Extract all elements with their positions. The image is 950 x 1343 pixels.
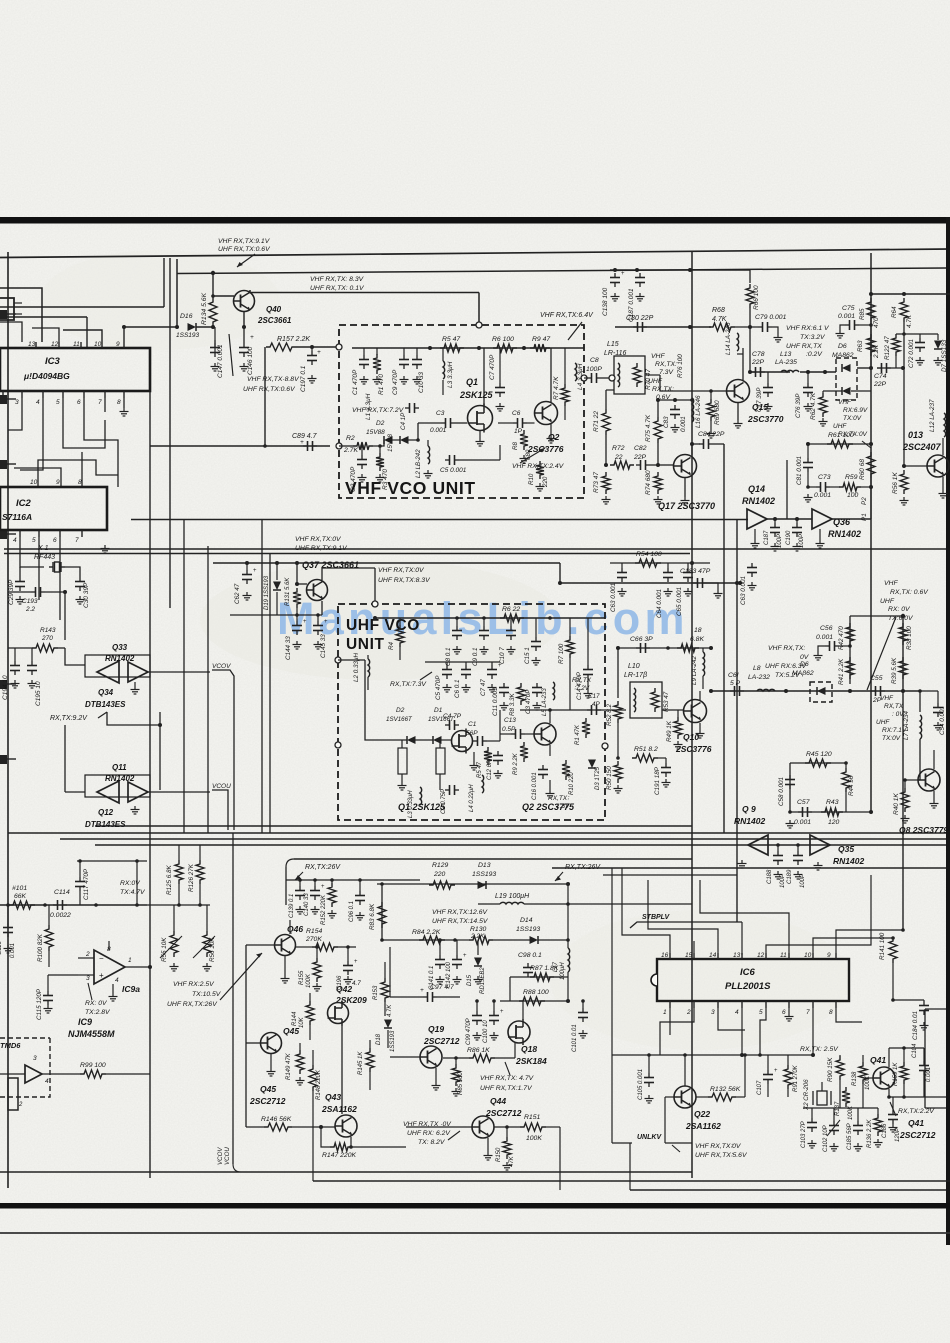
svg-text:RX,TX: RX,TX xyxy=(572,677,592,684)
svg-text:13: 13 xyxy=(733,952,741,959)
transistor Q46 2SC2712 xyxy=(275,935,296,956)
svg-text:VHF RX,TX:: VHF RX,TX: xyxy=(768,645,805,652)
svg-text:C139 0.1: C139 0.1 xyxy=(289,894,295,918)
ground under R10 xyxy=(536,483,545,491)
svg-text:UHF: UHF xyxy=(880,598,895,605)
w R85b xyxy=(455,1058,457,1064)
j R147 xyxy=(319,1125,323,1129)
capacitor C138 100 xyxy=(610,273,620,287)
wire y616 xyxy=(850,615,903,617)
svg-text:4: 4 xyxy=(735,1009,739,1016)
left edge pad xyxy=(0,680,7,689)
capacitor C7 470P xyxy=(495,383,505,397)
svg-text:0.001: 0.001 xyxy=(814,492,831,499)
capacitor C144 33 xyxy=(292,621,302,635)
wire C183 row xyxy=(560,582,740,584)
capacitor C4 1P xyxy=(405,403,419,413)
ground under C30 xyxy=(76,596,85,604)
resistor R73 47 xyxy=(602,472,610,494)
wire y940 xyxy=(382,939,455,941)
x xyxy=(892,938,894,1000)
wire Q14 to Q36 xyxy=(767,518,812,520)
resistor R148 220K xyxy=(309,1065,317,1091)
j C101 xyxy=(581,999,585,1003)
w xyxy=(491,662,493,665)
wire R143 right xyxy=(58,647,65,649)
w R154 l xyxy=(296,946,312,948)
wire rail to C183 row xyxy=(559,563,561,583)
svg-text:D3 1T25: D3 1T25 xyxy=(595,766,601,790)
svg-text:100P: 100P xyxy=(586,366,602,373)
svg-text:TX:4.7V: TX:4.7V xyxy=(120,889,146,896)
w R56 top xyxy=(206,905,208,931)
IC3 bottom pin 5 xyxy=(62,391,64,398)
w Q41 coll xyxy=(888,1048,890,1067)
svg-text:C193: C193 xyxy=(22,598,38,605)
IC3 top pin 13 xyxy=(35,342,37,348)
j D6 xyxy=(823,370,827,374)
svg-text:UHF RX,TX: UHF RX,TX xyxy=(786,343,822,350)
junction D16 xyxy=(175,325,179,329)
j xyxy=(453,938,457,942)
wire to R143 xyxy=(8,647,32,649)
wire corner xyxy=(233,1164,241,1172)
j3 xyxy=(688,268,692,272)
wire R87 row xyxy=(510,976,560,978)
wire y885 xyxy=(377,883,568,885)
diode D2 15V88 xyxy=(384,436,393,444)
resistor R18 6.8K xyxy=(677,644,699,652)
svg-text:UHF RX:6.3V: UHF RX:6.3V xyxy=(765,663,808,670)
svg-text:1SS193: 1SS193 xyxy=(516,926,540,933)
svg-text:R69 680: R69 680 xyxy=(714,400,721,425)
j R51 xyxy=(616,756,620,760)
capacitor C80 22P xyxy=(633,322,647,332)
svg-text:VHF RX,TX·8.8V: VHF RX,TX·8.8V xyxy=(247,376,300,383)
svg-text:C190: C190 xyxy=(786,530,792,545)
wire IC3 pin4 down xyxy=(20,398,43,470)
w R138 btm xyxy=(862,1084,864,1108)
wire Q45 base xyxy=(246,1042,261,1044)
svg-text:2.7K: 2.7K xyxy=(343,447,358,454)
svg-text:R9 47: R9 47 xyxy=(532,336,550,343)
j C144 xyxy=(295,613,299,617)
svg-text:3: 3 xyxy=(15,399,19,406)
ground C139 xyxy=(296,906,305,914)
gnd C6u xyxy=(462,684,471,692)
svg-text:4: 4 xyxy=(45,1078,49,1085)
FET Q42 2SK209 xyxy=(328,1001,349,1026)
svg-text:2.2K: 2.2K xyxy=(873,344,880,359)
svg-text:12: 12 xyxy=(757,952,765,959)
svg-text:C146 100: C146 100 xyxy=(247,346,254,375)
x xyxy=(48,957,78,959)
resistor R49 1K xyxy=(674,717,682,739)
w R145 btm xyxy=(369,1072,371,1090)
label arrow q18 xyxy=(505,1062,510,1075)
svg-text:R10: R10 xyxy=(528,473,535,485)
j C56 xyxy=(848,644,852,648)
svg-text:L19 100μH: L19 100μH xyxy=(495,893,530,900)
wire Q15 base xyxy=(715,390,726,392)
nothing xyxy=(870,368,872,391)
w C144 xyxy=(296,615,298,621)
svg-text:C64 0.001: C64 0.001 xyxy=(656,589,663,618)
resistor R63 2.2K xyxy=(867,334,875,356)
capacitor C13 0.5P xyxy=(511,729,525,739)
wire into Q12 xyxy=(65,791,85,793)
svg-text:DTB143ES: DTB143ES xyxy=(85,700,126,709)
svg-text:C75: C75 xyxy=(842,305,855,312)
wire IC6 pin5 dn xyxy=(760,1008,766,1055)
svg-text:Q18: Q18 xyxy=(521,1044,537,1054)
svg-text:C81 0.001: C81 0.001 xyxy=(796,456,803,485)
j R44 xyxy=(844,761,848,765)
capacitor C3u 470P xyxy=(532,683,542,697)
w R90 top xyxy=(839,1055,841,1056)
w C75 gnd xyxy=(840,325,845,330)
wire Q19 base xyxy=(390,1056,420,1058)
crystal X1 RF443 xyxy=(49,562,65,572)
svg-text:C195 10: C195 10 xyxy=(35,681,42,706)
svg-text:R55 10K: R55 10K xyxy=(161,937,168,962)
capacitor C3 0.001 xyxy=(441,418,455,428)
svg-text:15V88: 15V88 xyxy=(387,434,394,452)
ground C190 xyxy=(793,543,802,551)
ground under Q36 xyxy=(816,540,825,548)
node circle UHF left1 xyxy=(335,657,341,663)
wire C5 right xyxy=(459,459,500,461)
wire to D6b xyxy=(823,390,842,392)
w C186 top xyxy=(892,1097,894,1110)
svg-text:220: 220 xyxy=(433,871,446,878)
ground under Q15 xyxy=(734,420,743,428)
wire IC3 pin8 to gnd xyxy=(123,398,125,408)
label leader 88V xyxy=(229,334,233,376)
j C145 xyxy=(316,613,320,617)
j xyxy=(177,903,181,907)
wire Q46 base xyxy=(246,944,275,946)
svg-text:UHF RX,TX:1.7V: UHF RX,TX:1.7V xyxy=(480,1085,533,1092)
wire down to UHF box xyxy=(374,568,376,604)
ground under Q14 xyxy=(751,540,760,548)
wire Q13 collector xyxy=(942,438,944,455)
w R155 top xyxy=(316,947,318,958)
wire VCOV down xyxy=(212,670,234,830)
svg-text:L16 LA-246: L16 LA-246 xyxy=(695,395,702,428)
svg-text:IC3: IC3 xyxy=(45,356,61,367)
w R122 down xyxy=(895,356,897,368)
wire y400 xyxy=(658,399,692,401)
ground under C195 xyxy=(28,680,37,688)
svg-text:R5 47: R5 47 xyxy=(442,336,460,343)
svg-text:DTB143ES: DTB143ES xyxy=(85,820,126,829)
capacitor C66 3P xyxy=(636,643,650,653)
svg-text::0.2V: :0.2V xyxy=(806,351,823,358)
svg-text:R145 1K: R145 1K xyxy=(358,1051,364,1075)
diode D13 1SS193 xyxy=(478,881,487,889)
resistor R1u 47K xyxy=(582,718,590,738)
w R159 top xyxy=(903,1048,905,1062)
ground C196 xyxy=(344,976,353,984)
svg-text:2SK125: 2SK125 xyxy=(459,390,494,400)
svg-text:R147 220K: R147 220K xyxy=(322,1152,356,1159)
diode D19 1SS193 xyxy=(273,582,281,591)
wire x87 to IC3 xyxy=(86,317,88,347)
transistor Q41 2SC2712 xyxy=(873,1067,895,1089)
x xyxy=(310,1013,327,1018)
long wire y1172 xyxy=(0,1171,692,1173)
left edge pad xyxy=(0,460,7,469)
vertical wire x262 xyxy=(261,519,263,833)
w to C115 xyxy=(48,974,78,976)
ground under Q17 xyxy=(681,497,690,505)
capacitor C186 120P xyxy=(888,1110,898,1124)
junction C2 xyxy=(360,444,364,448)
capacitor C187b 100P xyxy=(770,523,780,537)
ground Q13 xyxy=(939,490,948,498)
svg-text:6: 6 xyxy=(53,537,57,544)
svg-text:R51 8.2: R51 8.2 xyxy=(634,746,658,753)
w R146 l xyxy=(246,1126,264,1128)
svg-text:15V88: 15V88 xyxy=(366,429,385,436)
ground C81 xyxy=(804,494,813,502)
svg-text:R74 680: R74 680 xyxy=(645,470,652,495)
w C54 xyxy=(920,690,938,692)
svg-text:TX:10.5V: TX:10.5V xyxy=(192,991,222,998)
wire IC3 pin10 xyxy=(63,330,102,342)
ground C99 xyxy=(473,1032,482,1040)
svg-text:R85: R85 xyxy=(859,308,866,320)
arrow unlkv xyxy=(672,1145,680,1152)
ground under C2 xyxy=(358,474,367,482)
cut IC fragment pin xyxy=(14,302,22,304)
svg-text:P2: P2 xyxy=(861,497,868,505)
wire x382 xyxy=(381,884,383,940)
capacitor C188 100P xyxy=(773,851,783,865)
w C97 r xyxy=(437,996,460,998)
resistor R85b 560 xyxy=(452,1064,460,1086)
svg-text:C7 470P: C7 470P xyxy=(489,354,496,380)
long vertical bus x150 xyxy=(149,391,151,1178)
svg-text:C74: C74 xyxy=(874,373,887,380)
resistor R84 2.2K xyxy=(419,936,445,944)
capacitor C141 0.1 xyxy=(435,955,445,969)
wire IC6 pin11 xyxy=(700,880,789,953)
svg-text:UHF RX,TX:8.3V: UHF RX,TX:8.3V xyxy=(378,577,431,584)
capacitor C185 56P xyxy=(853,1121,863,1135)
capacitor C183 47P xyxy=(693,578,707,588)
long bus wire y826 xyxy=(95,825,692,827)
j xyxy=(349,1145,353,1149)
j4 xyxy=(135,903,139,907)
capacitor C29 39P xyxy=(15,577,25,591)
IC3 top pin 10 xyxy=(101,342,103,348)
IC6 top pin 14 xyxy=(717,953,719,959)
svg-text:C184 0.01: C184 0.01 xyxy=(912,1011,919,1040)
w R86 l xyxy=(443,1057,469,1059)
w x510 xyxy=(509,977,511,1001)
wire L13 right xyxy=(800,371,836,373)
ground C144 xyxy=(293,641,302,649)
resistor R151 100K xyxy=(520,1123,546,1131)
wire X1 to C30 xyxy=(65,567,80,577)
svg-text:C97 4.7: C97 4.7 xyxy=(430,984,454,991)
w xyxy=(808,486,816,488)
wire L15 out to Q15 base xyxy=(660,375,715,391)
svg-text:D16: D16 xyxy=(180,313,193,320)
w C101 top xyxy=(582,1001,584,1008)
resistor R vert boxB xyxy=(436,748,445,774)
svg-text:R6 22: R6 22 xyxy=(502,606,520,613)
arrow 22v xyxy=(890,1102,896,1116)
wire x137 xyxy=(136,861,138,905)
wire R75 bottom xyxy=(657,443,659,465)
svg-text:UHF RX,TX:0.6V: UHF RX,TX:0.6V xyxy=(218,246,271,253)
w R3 xyxy=(379,446,381,453)
ground R55 xyxy=(170,963,179,971)
wire to C9u xyxy=(483,618,485,626)
wire to D16 xyxy=(124,326,177,328)
w C1u out xyxy=(487,740,500,742)
svg-text:4.7K: 4.7K xyxy=(906,314,913,328)
svg-text:100P: 100P xyxy=(800,874,806,888)
svg-text:8: 8 xyxy=(829,1009,833,1016)
w R145 top xyxy=(369,1040,371,1048)
wire L10 to Q10 xyxy=(662,709,683,711)
wire IC6 pin2 dn xyxy=(660,1008,694,1055)
w xyxy=(923,1000,925,1001)
svg-text:C82: C82 xyxy=(634,445,647,452)
j2 xyxy=(482,616,486,620)
inductor L17 100uH xyxy=(568,948,570,972)
svg-text:9: 9 xyxy=(116,341,120,348)
svg-text:9: 9 xyxy=(827,952,831,959)
ground under R62 xyxy=(819,418,828,426)
w xyxy=(797,845,799,851)
svg-text:3: 3 xyxy=(86,975,90,982)
j x745 xyxy=(743,1053,747,1057)
w Q41 emit xyxy=(888,1089,890,1097)
svg-text:C114: C114 xyxy=(54,889,70,896)
svg-text:TX:0V: TX:0V xyxy=(843,415,862,422)
ground C14 xyxy=(584,690,593,698)
long bus wire y833 xyxy=(8,832,946,834)
wire Q15 collector up xyxy=(742,348,744,380)
ground C183 xyxy=(714,590,723,598)
w L9 btm xyxy=(702,676,704,689)
svg-text:C6!: C6! xyxy=(728,672,739,679)
w C77 xyxy=(767,372,769,383)
inductor L4u xyxy=(482,775,484,793)
diode D6b xyxy=(842,387,851,395)
svg-text:R2: R2 xyxy=(346,435,355,442)
ground C63 0.001 xyxy=(618,588,627,596)
wire L7 to Q8 xyxy=(919,739,921,780)
wire y317 xyxy=(0,316,87,318)
svg-text:C4 1P: C4 1P xyxy=(400,412,407,430)
ground C103 xyxy=(808,1140,817,1148)
w D19 top xyxy=(276,563,278,580)
wire Q41 emit right xyxy=(889,1096,946,1098)
svg-text:4: 4 xyxy=(36,399,40,406)
long vertical wire x208 xyxy=(207,546,209,833)
w xyxy=(919,334,921,338)
w C102 xyxy=(833,1108,835,1121)
wire x904 down xyxy=(903,368,905,466)
resistor R38 100 xyxy=(899,623,907,645)
j R83 xyxy=(380,882,384,886)
svg-text:LA-232: LA-232 xyxy=(748,674,770,681)
capacitor C100 10 xyxy=(489,1011,499,1025)
wire to R1 470 xyxy=(376,348,378,355)
j L16 top xyxy=(690,398,694,402)
long vertical wire x184 xyxy=(183,519,185,833)
wire D2-D1 xyxy=(392,439,400,441)
svg-text:TX:2.8V: TX:2.8V xyxy=(85,1009,111,1016)
svg-text:R148 220K: R148 220K xyxy=(316,1069,322,1100)
ground under C7 xyxy=(496,403,505,411)
w R131 btm xyxy=(296,608,298,615)
svg-text:270: 270 xyxy=(41,635,53,642)
svg-text:LA-235: LA-235 xyxy=(775,359,797,366)
svg-text:VHF RX,TX:0V: VHF RX,TX:0V xyxy=(378,567,425,574)
svg-text:R150: R150 xyxy=(496,1147,502,1162)
ground C116 xyxy=(4,945,13,953)
w C62 xyxy=(246,563,248,570)
ground C64 0.001 xyxy=(664,588,673,596)
junction R3 xyxy=(378,444,382,448)
j2 xyxy=(796,843,800,847)
IC U-IC3 μPD4094BG xyxy=(0,348,150,391)
arrowhead 26a xyxy=(295,875,301,880)
x xyxy=(585,710,587,718)
ground Q9 xyxy=(738,860,747,868)
transistor Q2u 2SC3775 xyxy=(534,723,556,745)
wire x568 xyxy=(567,884,569,940)
j xyxy=(315,945,319,949)
capacitor C9u xyxy=(479,626,489,640)
svg-text:C16 0.001: C16 0.001 xyxy=(532,772,538,800)
wire to Q40 base xyxy=(213,295,234,297)
j xyxy=(776,843,780,847)
resistor R9u 2.2K xyxy=(520,742,528,762)
ground under R1 470 xyxy=(373,376,382,384)
ground under C72 xyxy=(916,357,925,365)
w C13 in xyxy=(500,733,511,735)
svg-text:Q8 2SC3779: Q8 2SC3779 xyxy=(899,825,948,835)
wire to C8u xyxy=(456,618,458,626)
left edge pad xyxy=(0,755,7,764)
svg-text:+: + xyxy=(498,663,502,669)
resistor R125 6.8K xyxy=(175,860,183,884)
svg-text:RX,TX: 0.6V: RX,TX: 0.6V xyxy=(890,589,929,596)
wire IC2 pin5 down xyxy=(38,537,40,600)
buffer Q14 RN1402 xyxy=(747,509,767,529)
wire R66 top xyxy=(749,270,751,283)
wire y880 xyxy=(286,879,420,881)
svg-text:R154: R154 xyxy=(306,928,322,935)
resistor R90 15K xyxy=(836,1056,844,1080)
svg-text:R41 2.2K: R41 2.2K xyxy=(838,658,845,685)
x xyxy=(768,844,810,846)
wire IC3 pin area a xyxy=(0,322,22,342)
svg-text:2SC3776: 2SC3776 xyxy=(675,744,712,754)
long vertical bus x724 xyxy=(723,444,725,833)
w xyxy=(861,486,871,488)
svg-text:C4 7P: C4 7P xyxy=(443,713,462,720)
svg-text:RN1402: RN1402 xyxy=(742,496,775,506)
